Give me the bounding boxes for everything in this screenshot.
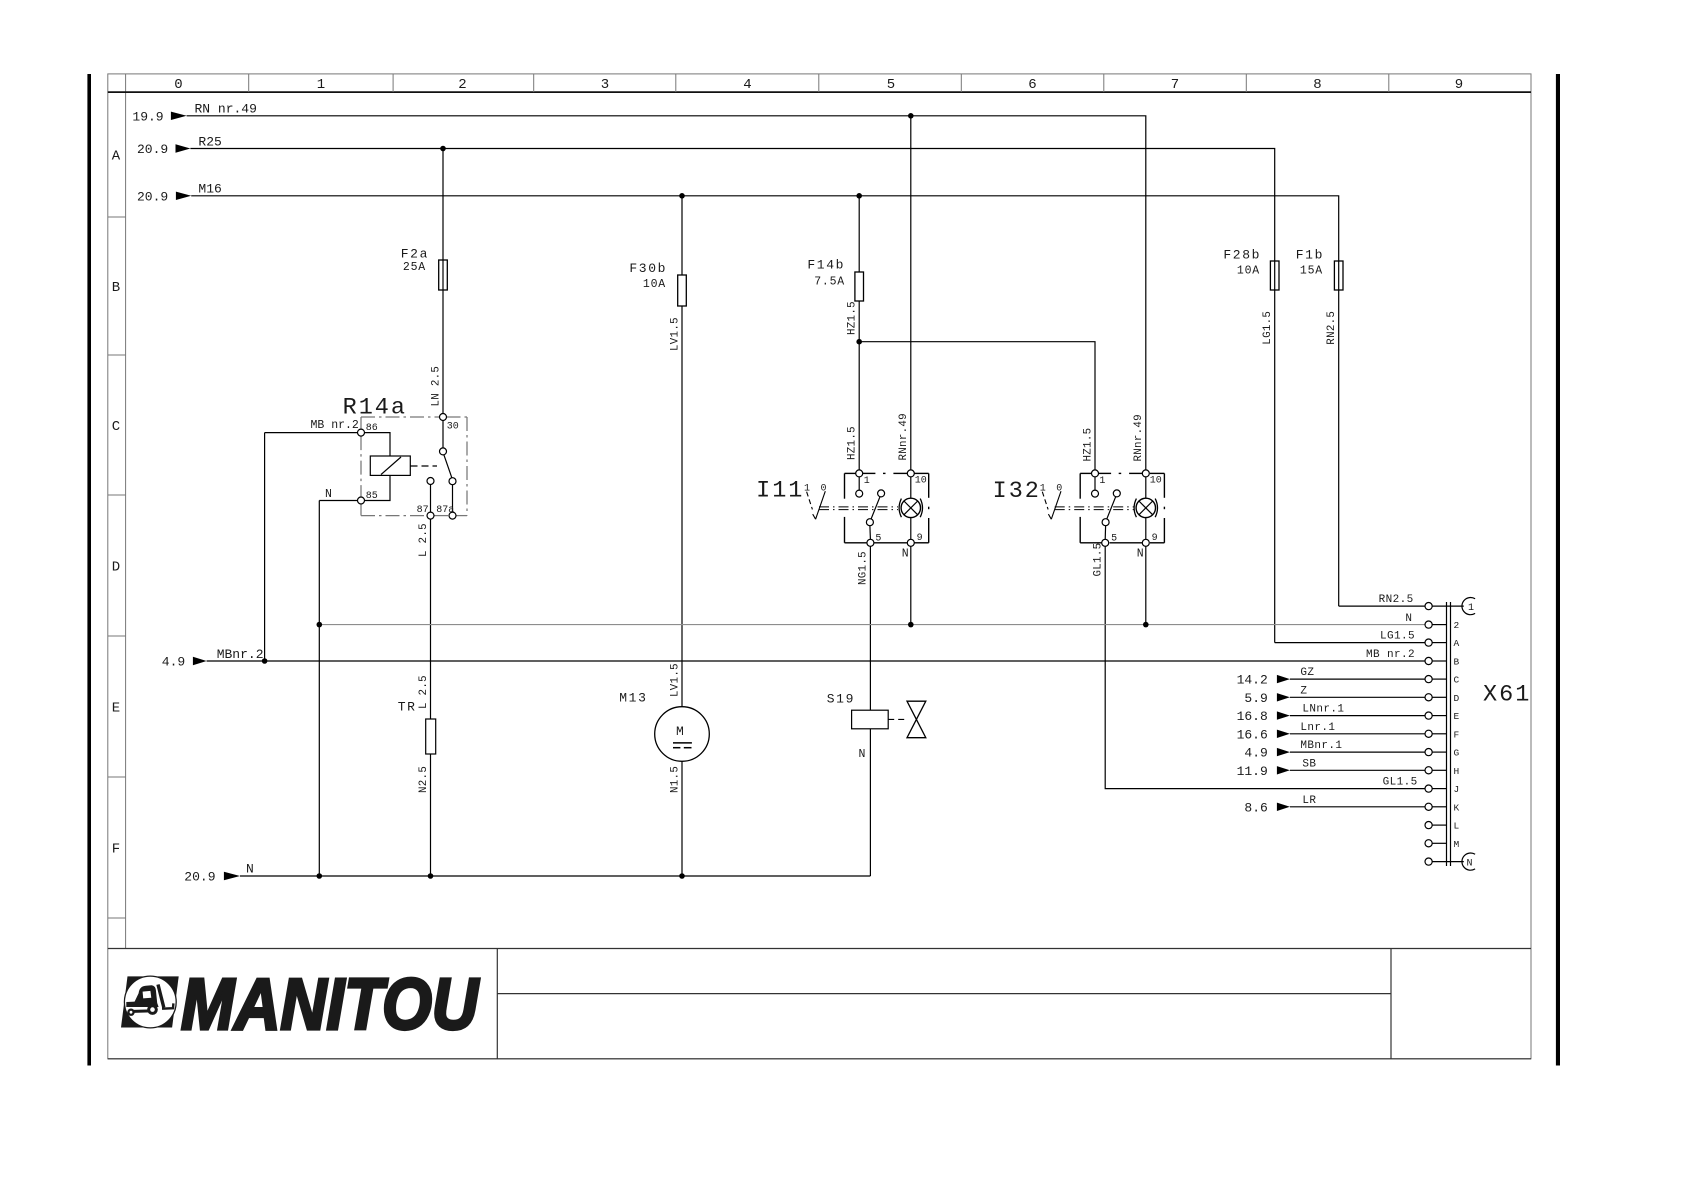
terminal 87a	[449, 512, 456, 519]
wire L2.5 from relay 87 through TR to N	[430, 519, 432, 719]
ruler numbers 0-9	[174, 77, 1463, 93]
wire R25 bus	[190, 149, 1274, 643]
svg-text:15A: 15A	[1300, 265, 1323, 278]
terminal 5	[867, 539, 874, 546]
svg-text:5: 5	[887, 77, 895, 93]
junction N/relay-N	[317, 622, 323, 628]
svg-text:C: C	[1454, 675, 1460, 686]
svg-text:N: N	[859, 748, 866, 761]
junction HZ1.5 branch	[856, 339, 862, 345]
wire MB nr.2 vertical	[264, 433, 266, 661]
terminal 87	[427, 512, 434, 519]
X61 pin N (bottom)	[1425, 853, 1475, 870]
svg-text:0: 0	[174, 77, 182, 93]
svg-text:M13: M13	[619, 691, 647, 706]
X61 pin K (LR)	[1244, 795, 1459, 816]
svg-text:2: 2	[1454, 620, 1460, 631]
right trim bar	[1556, 74, 1560, 1066]
svg-text:20.9: 20.9	[184, 870, 215, 885]
operator symbol	[1040, 483, 1063, 519]
dash-dot enclosure	[361, 417, 467, 516]
svg-text:LV1.5: LV1.5	[670, 317, 682, 351]
X61 pin J (GL1.5)	[1383, 777, 1460, 796]
svg-text:X61: X61	[1483, 682, 1531, 709]
wire N from I32 pin9 to N bus	[1145, 546, 1147, 624]
X61 pin 1 (RN2.5)	[1339, 594, 1475, 615]
svg-text:E: E	[112, 701, 120, 717]
fuse F28b	[1270, 261, 1279, 290]
svg-text:A: A	[1454, 638, 1460, 649]
svg-text:F: F	[1454, 729, 1460, 740]
svg-text:20.9: 20.9	[137, 189, 168, 204]
switch I11	[756, 470, 929, 561]
svg-text:N: N	[902, 548, 909, 561]
svg-text:MB nr.2: MB nr.2	[1366, 649, 1415, 661]
svg-text:4: 4	[743, 77, 751, 93]
svg-text:E: E	[1454, 711, 1460, 722]
node R25 source arrow	[137, 135, 222, 157]
svg-text:B: B	[112, 280, 120, 296]
connector bars	[1446, 602, 1448, 866]
svg-text:N: N	[246, 862, 254, 877]
svg-text:RN2.5: RN2.5	[1326, 311, 1338, 345]
junction MBnr.2/relay-86 wire	[262, 658, 268, 664]
terminal 86	[358, 429, 365, 436]
terminal 9	[1142, 539, 1149, 546]
coil wiring	[365, 433, 391, 456]
junction N/I11	[908, 622, 914, 628]
junction N/M13 wire	[679, 873, 685, 879]
X61 pin C (GZ)	[1237, 667, 1460, 688]
svg-text:NG1.5: NG1.5	[858, 551, 870, 585]
wire N bus (gray)	[319, 624, 1425, 626]
svg-text:N1.5: N1.5	[669, 766, 681, 793]
wire HZ branch to I32 pin1	[859, 342, 1095, 470]
svg-text:10A: 10A	[1237, 265, 1260, 278]
node N source arrow (bottom)	[184, 862, 254, 885]
svg-text:F2a: F2a	[401, 247, 429, 262]
svg-text:1: 1	[864, 476, 870, 487]
node M16 source arrow	[137, 182, 222, 205]
svg-text:RNnr.49: RNnr.49	[898, 413, 910, 460]
fuse F14b	[855, 272, 864, 301]
svg-text:1: 1	[1099, 476, 1105, 487]
svg-text:MANITOU: MANITOU	[181, 965, 480, 1045]
terminal 1	[1092, 470, 1099, 477]
wire 30 to pivot	[442, 421, 444, 448]
blade	[878, 490, 885, 497]
X61 pin D (Z)	[1244, 685, 1459, 706]
svg-text:87: 87	[417, 505, 429, 516]
svg-text:C: C	[112, 419, 120, 435]
wire HZ1.5 from M16 through F14b to I11 pin1	[858, 196, 860, 470]
svg-text:N: N	[1137, 548, 1144, 561]
svg-text:7: 7	[1171, 77, 1179, 93]
ruler band bottom line	[108, 91, 1531, 93]
X61 pin G (MBnr.1)	[1244, 740, 1459, 761]
operator symbol	[804, 483, 827, 519]
wire N bottom bus	[240, 875, 870, 877]
X61 pin M	[1425, 839, 1460, 850]
title block	[108, 949, 1531, 1059]
svg-text:MBnr.2: MBnr.2	[217, 647, 264, 662]
svg-text:10: 10	[915, 476, 927, 487]
svg-text:LV1.5: LV1.5	[670, 663, 682, 697]
svg-text:8: 8	[1313, 77, 1321, 93]
wire RN nr.49 bus	[187, 116, 1146, 470]
svg-text:Lnr.1: Lnr.1	[1300, 722, 1335, 734]
X61 pin L	[1425, 821, 1460, 832]
terminal 85	[358, 497, 365, 504]
node RN nr.49 source arrow	[132, 102, 257, 125]
svg-text:HZ1.5: HZ1.5	[847, 301, 859, 335]
terminal 9	[907, 539, 914, 546]
svg-text:5: 5	[875, 534, 881, 545]
resistor TR	[426, 719, 436, 754]
svg-text:4.9: 4.9	[1244, 746, 1267, 761]
svg-text:10A: 10A	[643, 278, 666, 291]
svg-text:5.9: 5.9	[1244, 691, 1267, 706]
mech link double dashed	[819, 506, 898, 508]
wire LV1.5 from M16 through F30b to M13	[681, 196, 683, 707]
svg-text:20.9: 20.9	[137, 142, 168, 157]
connector X61	[1447, 602, 1532, 866]
lamp	[901, 498, 920, 517]
switch I32	[993, 470, 1165, 561]
svg-text:2: 2	[458, 77, 466, 93]
svg-text:J: J	[1454, 784, 1460, 795]
svg-text:LG1.5: LG1.5	[1262, 311, 1274, 345]
junction M16/F30b	[679, 193, 685, 199]
X61 pin F (Lnr.1)	[1237, 722, 1460, 743]
svg-text:A: A	[112, 149, 121, 165]
svg-text:10: 10	[1150, 476, 1162, 487]
wire LN2.5 from R25 through F2a to relay 30	[442, 149, 444, 414]
contact above 87	[427, 478, 434, 485]
svg-text:HZ1.5: HZ1.5	[1082, 428, 1094, 462]
svg-text:F30b: F30b	[629, 261, 667, 276]
junction N/TR wire	[428, 873, 434, 879]
svg-text:D: D	[112, 560, 120, 576]
node MBnr.2 source arrow	[162, 647, 264, 670]
svg-text:GL1.5: GL1.5	[1383, 777, 1418, 789]
svg-text:86: 86	[366, 423, 378, 434]
fuse F1b	[1334, 261, 1343, 290]
svg-text:6: 6	[1028, 77, 1036, 93]
svg-text:G: G	[1454, 748, 1460, 759]
svg-text:F28b: F28b	[1223, 248, 1261, 263]
X61 pin B (MB nr.2)	[1366, 649, 1460, 668]
svg-text:R25: R25	[198, 135, 221, 150]
svg-text:4.9: 4.9	[162, 655, 185, 670]
svg-text:N: N	[325, 488, 332, 501]
svg-text:LR: LR	[1302, 795, 1316, 807]
svg-text:D: D	[1454, 693, 1460, 704]
box	[1080, 473, 1164, 542]
svg-text:M: M	[676, 724, 684, 739]
svg-text:MB nr.2: MB nr.2	[311, 419, 359, 432]
terminal 10	[907, 470, 914, 477]
blade	[444, 455, 452, 478]
box	[845, 473, 929, 542]
svg-text:M: M	[1454, 839, 1460, 850]
svg-text:I11: I11	[756, 478, 804, 505]
svg-text:Z: Z	[1300, 685, 1307, 697]
svg-text:H: H	[1454, 766, 1460, 777]
svg-text:TR: TR	[398, 700, 417, 715]
svg-text:3: 3	[601, 77, 609, 93]
wire GL1.5 from I32 pin5 to X61:J	[1105, 546, 1425, 788]
svg-text:85: 85	[366, 491, 378, 502]
svg-text:SB: SB	[1302, 758, 1316, 770]
svg-text:25A: 25A	[403, 261, 426, 274]
terminal 30	[440, 414, 447, 421]
X61 pin H (SB)	[1237, 758, 1460, 779]
wire N vertical	[318, 501, 320, 877]
contact above 87a	[449, 478, 456, 485]
svg-text:0: 0	[821, 483, 827, 494]
mech link double dashed	[1055, 506, 1134, 508]
wire NG1.5 from I11 pin5 to S19	[869, 546, 871, 710]
wire RNnr.49 down to I11 pin10	[910, 116, 912, 470]
svg-text:GZ: GZ	[1300, 667, 1314, 679]
wire N1.5 below M13	[681, 761, 683, 876]
svg-text:LG1.5: LG1.5	[1380, 631, 1415, 643]
svg-text:B: B	[1454, 657, 1460, 668]
svg-text:16.8: 16.8	[1237, 709, 1268, 724]
row letter dividers	[108, 217, 126, 918]
switch pivot	[440, 448, 447, 455]
svg-text:L 2.5: L 2.5	[418, 675, 430, 709]
svg-text:16.6: 16.6	[1237, 727, 1268, 742]
X61 pin A (LG1.5)	[1275, 631, 1460, 650]
svg-text:0: 0	[1056, 483, 1062, 494]
blade	[1113, 490, 1120, 497]
wire MBnr.2 bus	[207, 660, 1425, 662]
fixed contact	[858, 477, 860, 490]
terminal 5	[1102, 539, 1109, 546]
row letters A-F	[112, 149, 121, 858]
svg-text:19.9: 19.9	[132, 109, 163, 124]
wire N below S19	[869, 729, 871, 876]
junction RN/I11 lamp	[908, 113, 914, 119]
svg-text:RN nr.49: RN nr.49	[195, 102, 257, 117]
svg-text:F1b: F1b	[1296, 248, 1324, 263]
svg-text:F14b: F14b	[807, 257, 845, 272]
wire M16 bus	[191, 196, 1339, 606]
svg-text:F: F	[112, 842, 120, 858]
svg-text:9: 9	[1152, 533, 1158, 544]
svg-text:N: N	[1467, 859, 1473, 870]
svg-text:GL1.5: GL1.5	[1093, 543, 1105, 577]
svg-text:1: 1	[317, 77, 325, 93]
svg-text:30: 30	[447, 422, 459, 433]
svg-text:MBnr.1: MBnr.1	[1300, 740, 1342, 752]
junction N/relay-85 wire	[317, 873, 323, 879]
svg-text:L: L	[1454, 821, 1460, 832]
svg-text:1: 1	[1468, 603, 1474, 614]
svg-text:RN2.5: RN2.5	[1379, 594, 1414, 606]
svg-text:11.9: 11.9	[1237, 764, 1268, 779]
fuse F30b	[678, 275, 687, 306]
svg-text:N: N	[1405, 613, 1412, 625]
svg-text:I32: I32	[993, 478, 1041, 505]
svg-text:N2.5: N2.5	[418, 766, 430, 793]
svg-text:RNnr.49: RNnr.49	[1133, 414, 1145, 461]
svg-text:14.2: 14.2	[1237, 673, 1268, 688]
X61 pin 2 (N)	[1405, 613, 1459, 631]
junction M16/F14b	[856, 193, 862, 199]
solenoid valve S19	[827, 692, 926, 762]
relay R14a	[343, 395, 467, 520]
wire N from I11 pin9 to N bus	[910, 546, 912, 624]
svg-text:K: K	[1454, 802, 1460, 813]
svg-text:87a: 87a	[436, 505, 454, 516]
lamp	[1136, 498, 1155, 517]
junction R25/F2a	[440, 146, 446, 152]
svg-text:HZ1.5: HZ1.5	[847, 426, 859, 460]
svg-text:L 2.5: L 2.5	[418, 523, 430, 557]
terminal 10	[1142, 470, 1149, 477]
fuse F2a	[439, 260, 448, 290]
svg-text:S19: S19	[827, 692, 855, 707]
drawing frame	[108, 74, 1531, 1059]
svg-text:7.5A: 7.5A	[814, 276, 845, 289]
svg-text:M16: M16	[198, 182, 221, 197]
actuation dashes	[411, 465, 438, 467]
wire 86 to left	[265, 432, 358, 434]
ruler column dividers	[249, 74, 1389, 92]
left trim bar	[87, 74, 91, 1066]
motor M13	[619, 691, 709, 762]
coil	[370, 456, 410, 475]
X61 pin E (LNnr.1)	[1237, 704, 1460, 725]
fixed contact	[1094, 477, 1096, 490]
svg-text:8.6: 8.6	[1244, 800, 1267, 815]
svg-text:LNnr.1: LNnr.1	[1302, 704, 1344, 716]
MANITOU logo mark	[121, 976, 179, 1028]
svg-text:9: 9	[917, 533, 923, 544]
svg-text:9: 9	[1455, 77, 1463, 93]
terminal 1	[856, 470, 863, 477]
svg-text:LN 2.5: LN 2.5	[431, 366, 443, 407]
junction N/I32	[1143, 622, 1149, 628]
wire 85 to left	[319, 500, 357, 502]
svg-text:5: 5	[1111, 534, 1117, 545]
